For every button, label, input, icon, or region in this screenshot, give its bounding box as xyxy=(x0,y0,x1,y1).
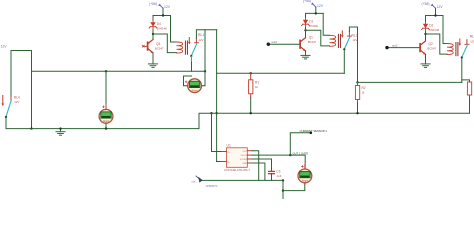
relay RL2 xyxy=(330,31,352,51)
wire meter A right link xyxy=(202,85,206,87)
svg-text:12V: 12V xyxy=(317,4,324,8)
svg-text:(+88): (+88) xyxy=(149,2,157,6)
relay contact RL4 xyxy=(2,96,20,119)
svg-text:VCC: VCC xyxy=(243,151,248,153)
svg-text:1uF: 1uF xyxy=(277,174,282,178)
wire bottom rail up to long rail xyxy=(199,113,211,128)
wire R3 top hook xyxy=(462,80,470,82)
wire IP- stub xyxy=(217,161,222,163)
wire emitter to ground A xyxy=(152,53,154,62)
wire base Q1 xyxy=(268,43,300,45)
relay RL3 xyxy=(447,39,469,59)
svg-text:CURRENT SENSOR 1: CURRENT SENSOR 1 xyxy=(300,129,328,133)
node R2 top xyxy=(356,81,358,83)
relay RL1 xyxy=(177,38,199,58)
wire RL1 contact top to loop xyxy=(196,30,216,38)
svg-text:12V: 12V xyxy=(353,38,358,42)
diode D1 xyxy=(302,18,310,27)
svg-text:BC547: BC547 xyxy=(155,47,164,51)
diode D4 xyxy=(149,21,157,30)
wire left label to RL4 xyxy=(10,51,12,98)
svg-text:RL1: RL1 xyxy=(198,33,204,37)
meter A xyxy=(188,79,202,93)
svg-text:U1: U1 xyxy=(227,144,231,148)
wire VIOUT run to meter C xyxy=(252,155,305,162)
svg-text:GND: GND xyxy=(242,163,247,165)
node diode-collector junction A xyxy=(152,33,154,35)
wire GND run xyxy=(252,163,265,180)
svg-text:12V: 12V xyxy=(437,5,444,9)
diode D2 xyxy=(422,22,430,31)
wire diode to collector A xyxy=(152,30,154,40)
svg-text:FILTER: FILTER xyxy=(240,159,247,161)
svg-text:vPRINT1: vPRINT1 xyxy=(206,184,219,188)
ground bottom rail xyxy=(56,129,65,135)
svg-text:RL2: RL2 xyxy=(352,34,358,38)
svg-text:R2: R2 xyxy=(362,86,366,90)
svg-text:(+88): (+88) xyxy=(303,0,311,3)
power terminal +12V stage A xyxy=(158,4,163,9)
transistor Q2 xyxy=(420,41,425,54)
node rail A junction xyxy=(162,14,164,16)
wire loop down to IP- xyxy=(216,30,218,162)
meter C xyxy=(298,169,312,183)
svg-text:C3: C3 xyxy=(276,169,280,173)
svg-text:ACS712ELCTR-05A-T: ACS712ELCTR-05A-T xyxy=(224,168,251,172)
svg-text:1k: 1k xyxy=(362,91,366,95)
wire bottom rail xyxy=(32,128,200,130)
capacitor C3 xyxy=(269,169,282,180)
wire mid rail 71 xyxy=(32,70,206,72)
transistor Q3 xyxy=(148,40,153,53)
wire meter B bottom xyxy=(105,124,107,129)
wire meter C bottom run xyxy=(283,183,305,190)
svg-text:12V: 12V xyxy=(1,45,8,49)
ground stage 2 xyxy=(301,53,310,59)
wire current sensor label stub xyxy=(290,133,311,155)
svg-text:Q2: Q2 xyxy=(429,42,433,46)
svg-text:12V: 12V xyxy=(470,39,474,43)
wire RL1 pivot down to rail xyxy=(191,57,193,72)
svg-text:out1: out1 xyxy=(272,40,278,44)
node diode-collector junction 3 xyxy=(424,33,426,35)
wire RL3 pivot down xyxy=(461,58,463,82)
svg-text:RL3: RL3 xyxy=(470,35,474,39)
svg-text:1N4148: 1N4148 xyxy=(157,26,167,30)
node meter drop on rail xyxy=(204,70,206,72)
node mid rail / meter B xyxy=(105,70,107,72)
wire top rail 2 xyxy=(306,12,324,14)
probe vout xyxy=(192,176,219,188)
resistor R3 xyxy=(467,82,471,95)
svg-text:VIOUT: VIOUT xyxy=(241,155,248,157)
wire terminal stub A xyxy=(162,8,164,15)
wire meter A top drop xyxy=(204,30,206,86)
node meter C bottom run xyxy=(282,189,284,191)
wire IP+ vertical xyxy=(212,113,222,151)
svg-text:12V: 12V xyxy=(199,38,204,42)
wire left staircase xyxy=(11,51,32,129)
node diode-collector junction 2 xyxy=(304,29,306,31)
IC U1 (ACS712 current sensor) xyxy=(222,144,253,172)
ground stage 3 xyxy=(421,62,430,68)
svg-text:out2: out2 xyxy=(392,44,398,48)
svg-text:IP-: IP- xyxy=(228,162,231,164)
wire terminal stub 2 xyxy=(315,7,317,13)
resistor R2 xyxy=(357,82,359,85)
svg-text:DIODE: DIODE xyxy=(309,24,318,28)
svg-text:12V: 12V xyxy=(14,100,19,104)
meter B xyxy=(99,109,113,123)
wire RL2 pivot down to rail A xyxy=(343,50,345,74)
svg-text:RL4: RL4 xyxy=(14,96,20,100)
wire top rail 3 xyxy=(426,15,444,17)
wire FILTER run to cap xyxy=(252,159,271,171)
resistor R1 xyxy=(250,73,252,80)
node IP+ vertical xyxy=(210,112,212,114)
svg-text:12V: 12V xyxy=(164,5,171,9)
svg-text:Q3: Q3 xyxy=(156,42,160,46)
wire VCC run xyxy=(252,151,258,181)
svg-text:1N4148: 1N4148 xyxy=(429,28,439,32)
svg-text:R1: R1 xyxy=(255,81,259,85)
wire collector node to coil bottom 2 xyxy=(306,30,330,46)
wire gnd drop to bottom edge xyxy=(282,180,284,199)
wire 82 horizontal R2 to stage3 pivot xyxy=(358,81,462,83)
power terminal stage 2 xyxy=(311,2,316,7)
node gnd net 180 xyxy=(282,179,284,181)
wire collector node to coil bottom 3 xyxy=(426,34,448,54)
node R1 top xyxy=(250,72,252,74)
wire emitter to ground 2 xyxy=(305,51,307,53)
right pins xyxy=(247,150,252,152)
wire top rail A xyxy=(153,15,171,17)
wire rail to coil top 2 xyxy=(323,13,329,35)
wire rail to coil top 3 xyxy=(443,16,447,44)
transistor Q1 xyxy=(300,38,305,51)
left pins xyxy=(222,151,227,153)
wire rail to diode A xyxy=(152,16,154,21)
wire RL4 pivot to bottom rail xyxy=(6,118,32,129)
power terminal stage 3 xyxy=(431,4,436,9)
svg-text:1k: 1k xyxy=(255,85,259,89)
wire long rail 113 xyxy=(211,112,470,114)
wire probe run 180 xyxy=(200,179,283,181)
node VIOUT sensor xyxy=(289,154,291,156)
wire meter A left hook xyxy=(184,76,192,86)
wire RL2 contact top loop to R2 xyxy=(349,27,357,82)
svg-text:BC547: BC547 xyxy=(308,40,317,44)
svg-text:Q1: Q1 xyxy=(309,36,313,40)
svg-text:out: out xyxy=(192,179,196,183)
node bottom rail left xyxy=(30,127,32,129)
wire meter B top xyxy=(105,71,107,105)
wire rail to coil top A xyxy=(171,16,177,43)
svg-text:OUT 1 GATE: OUT 1 GATE xyxy=(293,151,309,155)
wire base Q2 xyxy=(387,47,420,49)
svg-text:(+88): (+88) xyxy=(422,2,430,6)
ground stage A xyxy=(148,62,157,68)
wire emitter to ground 3 xyxy=(425,54,427,61)
svg-text:BC547: BC547 xyxy=(428,46,437,50)
wire collector node to coil bottom A xyxy=(153,34,177,53)
wire rail A xyxy=(217,72,345,74)
wire terminal stub 3 xyxy=(435,8,437,15)
